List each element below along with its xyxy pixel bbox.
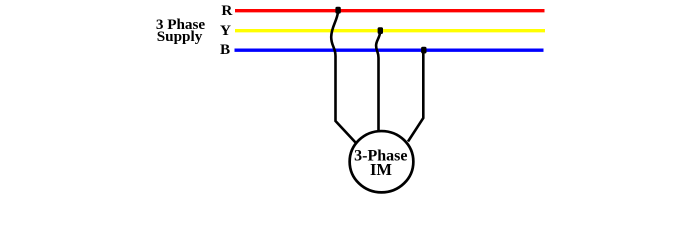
wire tap from B line to motor (408, 52, 423, 142)
wire tap from Y line to motor (376, 33, 380, 130)
motor M1 circle (350, 131, 414, 192)
junction node on R line (335, 7, 340, 14)
supply label "3 Phase Supply" (156, 16, 206, 45)
svg-text:Y: Y (220, 22, 231, 39)
wire Y phase busbar (yellow) (235, 29, 545, 32)
junction node on B line (421, 47, 426, 54)
svg-text:R: R (221, 2, 233, 19)
wire tap from R line to motor (331, 12, 356, 143)
svg-text:IM: IM (370, 160, 392, 179)
wire R phase busbar (red) (235, 9, 545, 12)
svg-text:Supply: Supply (157, 28, 203, 45)
motor label "3-Phase IM" (354, 147, 407, 179)
wire B phase busbar (blue) (235, 49, 544, 52)
svg-text:B: B (220, 41, 230, 58)
junction node on Y line (378, 27, 383, 34)
